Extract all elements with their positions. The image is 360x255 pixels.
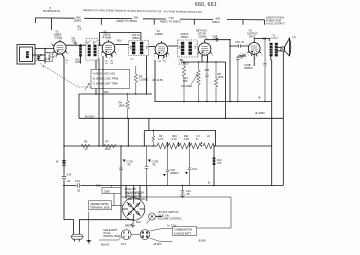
svg-text:PL-1: PL-1 (121, 242, 127, 246)
resistor R3 (134, 66, 149, 95)
wire loop to grid (35, 48, 54, 50)
svg-text:5: 5 (212, 55, 214, 57)
svg-text:C15 .01: C15 .01 (235, 40, 245, 44)
B- bus (155, 60, 272, 102)
svg-text:30X: 30X (134, 15, 139, 19)
svg-text:L6: L6 (207, 134, 210, 138)
svg-text:.005: .005 (204, 68, 210, 72)
B+ bus (79, 117, 283, 119)
svg-text:.03: .03 (67, 179, 71, 183)
capacitor C1B trimmer arrow (85, 84, 90, 91)
wire V3 plate to T3if (168, 45, 178, 47)
svg-text:B+105V: B+105V (256, 111, 266, 115)
svg-text:4.7K: 4.7K (158, 137, 164, 141)
svg-text:600KC TO 455KC: 600KC TO 455KC (117, 19, 138, 23)
svg-text:7: 7 (110, 58, 112, 60)
wire 45V feed line (79, 93, 152, 95)
resistor R13 box 2950 (96, 184, 123, 206)
svg-text:C14: C14 (75, 179, 80, 183)
svg-text:SENSITIVITY AND STAGE GAINS AT: SENSITIVITY AND STAGE GAINS AT 50 MILLIW… (83, 8, 203, 14)
svg-text:COIL: COIL (75, 60, 82, 64)
wire canA return (98, 59, 100, 147)
electrolytic C17A (119, 146, 133, 186)
bracket ticks (36, 18, 265, 30)
svg-text:7.5X: 7.5X (169, 16, 175, 20)
svg-text:1.3K: 1.3K (184, 137, 190, 141)
svg-text:.004: .004 (213, 36, 219, 40)
svg-text:5: 5 (116, 54, 118, 56)
svg-text:COMBINATION: COMBINATION (174, 228, 192, 232)
battery box note (150, 227, 197, 242)
svg-text:B 1620KC OSC TRIM: B 1620KC OSC TRIM (93, 77, 118, 81)
wire avc return drop (229, 46, 231, 102)
capacitor C14 coupling (216, 38, 218, 42)
bottom rail (63, 185, 283, 187)
svg-text:.05: .05 (77, 189, 81, 193)
svg-text:VIEWED FROM: VIEWED FROM (90, 202, 109, 206)
wire switch bottom area (120, 146, 122, 186)
potentiometer R5 volume (181, 61, 200, 101)
inductor L7 hash choke (212, 146, 222, 186)
BUSES (63, 57, 283, 234)
svg-text:2: 2 (198, 56, 200, 58)
left return vertical (63, 57, 65, 186)
svg-text:45V: 45V (104, 90, 109, 94)
filter loop wire (148, 118, 150, 130)
BOTTOM (71, 146, 231, 246)
transformer T4 output (269, 34, 279, 57)
svg-text:R5: R5 (84, 140, 88, 144)
svg-text:2: 2 (154, 56, 156, 58)
capacitor C13b (204, 61, 210, 101)
svg-text:R13: R13 (96, 184, 101, 188)
svg-text:BLACK: BLACK (101, 242, 110, 246)
loop antenna L1 (17, 45, 35, 65)
V2 pin stubs down (103, 55, 112, 147)
wire loop lower (33, 54, 46, 56)
alignment box (91, 69, 130, 88)
svg-text:.1: .1 (65, 63, 68, 65)
capacitor C15 coupling (239, 44, 241, 48)
V1 pin stubs down (62, 55, 64, 58)
wire B- right drop (271, 102, 273, 186)
svg-text:PRONG VIEW: PRONG VIEW (104, 234, 121, 238)
svg-text:5: 5 (262, 54, 264, 56)
divider chain resistors (157, 134, 215, 149)
svg-text:4: 4 (61, 38, 63, 40)
svg-text:2.2MEG: 2.2MEG (139, 78, 149, 82)
svg-text:BROWN: BROWN (125, 224, 135, 228)
wire B+ right drop (282, 118, 284, 185)
wire screen drop (127, 118, 129, 146)
svg-text:LINE POSITION: LINE POSITION (127, 197, 146, 201)
wire vertical x79 to B+ (78, 94, 80, 118)
svg-text:1: 1 (56, 57, 58, 59)
svg-text:TERMINAL SIDE: TERMINAL SIDE (90, 206, 110, 210)
mid rail with divider chain (64, 145, 157, 147)
transformer T3 2nd IF (178, 32, 198, 57)
svg-text:B+105V: B+105V (85, 114, 95, 118)
svg-text:C19: C19 (192, 167, 197, 171)
svg-text:30MFD: 30MFD (170, 171, 179, 175)
tube V4 det avc af (196, 29, 214, 61)
resistor R14 (131, 220, 142, 228)
svg-text:B-: B- (259, 96, 262, 100)
switch S1B (147, 213, 163, 224)
svg-text:68: 68 (111, 63, 114, 65)
transformer T1 osc (86, 39, 98, 60)
wire canB cap return (146, 56, 148, 95)
svg-text:C 1400KC ANT TRIM: C 1400KC ANT TRIM (93, 82, 118, 86)
TOPROW (17, 29, 296, 119)
electrolytic C17B (145, 146, 159, 186)
measurement bracket line (36, 18, 265, 20)
V3 pin stubs down (159, 54, 167, 60)
tube V2 IF amp (100, 30, 118, 60)
wire T2 to V3 (149, 46, 156, 48)
svg-text:C9: C9 (130, 59, 134, 61)
plug PL-1 male (99, 228, 131, 247)
svg-text:6: 6 (110, 38, 112, 40)
electrolytic C17C on left line (56, 160, 66, 166)
svg-text:455KC: 455KC (181, 35, 189, 39)
svg-text:A+ 7.5V: A+ 7.5V (167, 224, 177, 228)
wire osc grid return (95, 60, 97, 94)
node plate junction (229, 39, 230, 40)
svg-text:12BA6: 12BA6 (155, 32, 163, 36)
svg-text:455KC: 455KC (212, 20, 220, 24)
svg-text:500: 500 (183, 79, 188, 83)
note viewed from terminal side (89, 201, 112, 210)
switch S1A rotary (123, 198, 145, 220)
resistor R7b on rail (104, 140, 116, 151)
svg-text:1.4: 1.4 (78, 27, 82, 31)
svg-text:LS: LS (293, 35, 296, 39)
svg-text:A 455KC OSC ADJ: A 455KC OSC ADJ (93, 72, 116, 76)
svg-text:5: 5 (68, 54, 70, 56)
V4 pin stubs to AF rail (202, 56, 208, 63)
svg-text:470K: 470K (218, 75, 224, 79)
electrolytic C19 (185, 146, 197, 186)
wire speaker return (282, 51, 284, 118)
capacitor C14 on left line (62, 173, 72, 184)
svg-text:600KC: 600KC (74, 18, 82, 22)
wire drop to B+ (225, 62, 227, 118)
inductor L2 osc coil (75, 44, 83, 64)
svg-text:455KC: 455KC (132, 36, 140, 40)
capacitor C16A (236, 53, 246, 103)
left vertical lower to plug (64, 186, 74, 235)
wire gang dashed linkage (40, 64, 91, 88)
node B- label (213, 185, 214, 186)
svg-text:7: 7 (255, 58, 257, 60)
svg-text:B-: B- (208, 181, 211, 185)
svg-text:.05: .05 (186, 192, 190, 196)
svg-text:+B 90V: +B 90V (153, 242, 162, 246)
transformer T2 1st IF (129, 33, 149, 55)
resistor R7a on rail (81, 140, 90, 151)
node T1-V2 junction (99, 45, 100, 46)
wire T1 to V2 (98, 44, 102, 46)
svg-text:.05: .05 (105, 63, 109, 65)
MIDDLE (56, 38, 267, 198)
svg-text:T1: T1 (273, 34, 277, 38)
electrolytic C18 (163, 146, 179, 186)
wire feeds to switch (126, 186, 147, 202)
wire AF top rail (181, 61, 226, 63)
capacitor C16B (244, 38, 267, 102)
svg-text:1200: 1200 (105, 147, 111, 151)
wire V2 plate to T2 (115, 44, 129, 46)
HEADER (36, 2, 286, 31)
svg-text:R3: R3 (163, 61, 167, 63)
resistor R6 screen (119, 93, 130, 119)
wire V5 cathode stub (253, 54, 255, 66)
wire lower loop (121, 197, 231, 228)
svg-text:2.2K: 2.2K (172, 137, 178, 141)
wire V5 plate to T4 (254, 39, 269, 42)
capacitor C3 grid (45, 53, 58, 62)
svg-text:180K: 180K (119, 104, 125, 108)
tube V5 output (246, 29, 264, 60)
svg-text:R12: R12 (136, 220, 141, 224)
wire top bus to T2 (100, 33, 141, 46)
svg-text:1: 1 (248, 55, 250, 57)
svg-text:-B 90V: -B 90V (198, 239, 206, 243)
AC line plug (71, 234, 83, 241)
svg-text:50C5: 50C5 (249, 35, 256, 39)
capacitor C20 ground (180, 185, 191, 198)
svg-text:A VOL OUTPUT: A VOL OUTPUT (266, 22, 285, 26)
svg-text:470: 470 (217, 161, 222, 165)
wire V4 plate (205, 39, 230, 41)
capacitor C2 (74, 42, 77, 45)
node junction dots B- (183, 101, 184, 102)
svg-text:C14: C14 (67, 173, 72, 177)
resistor R9 small (152, 130, 155, 147)
svg-text:VOLUME: VOLUME (181, 84, 192, 88)
svg-text:VOLUME CONTROL: VOLUME CONTROL (158, 217, 183, 221)
resistor R8 (214, 61, 224, 101)
ground chassis (86, 212, 91, 244)
svg-text:90V: 90V (117, 39, 122, 43)
wire T4 secondary to speaker (278, 48, 282, 51)
wire plug right feed (79, 220, 133, 235)
svg-text:MICROVOLTS: MICROVOLTS (43, 9, 60, 13)
svg-text:5: 5 (169, 56, 171, 58)
svg-text:W: W (56, 160, 59, 164)
svg-text:R7: R7 (106, 140, 110, 144)
svg-text:455KC TO 455KC: 455KC TO 455KC (160, 20, 181, 24)
svg-text:220: 220 (72, 39, 77, 43)
svg-text:A AND B BATT: A AND B BATT (174, 231, 192, 235)
resistor R4 (179, 58, 189, 102)
svg-text:C10: C10 (157, 61, 162, 63)
plug SO-1 female (131, 230, 150, 240)
wire V1 plate to T1 (66, 44, 86, 46)
resistor R1 grid leak (47, 53, 51, 62)
capacitor C14 series in rail (75, 179, 81, 192)
node rail junctions (98, 145, 99, 146)
node loop junctions (44, 49, 46, 64)
tube V1 converter (51, 30, 70, 60)
wire to V5 grid (230, 40, 248, 46)
svg-text:2950: 2950 (104, 189, 110, 193)
capacitor C1A tuning (36, 54, 51, 61)
tube V3 2nd IF (153, 29, 171, 61)
speaker LS (281, 35, 296, 56)
svg-text:OUTPUT: OUTPUT (270, 38, 280, 40)
svg-text:CB 13.5V: CB 13.5V (152, 78, 163, 82)
svg-text:30MFD: 30MFD (244, 66, 253, 70)
svg-text:40X: 40X (216, 16, 221, 20)
wire T4 primary bottom (270, 57, 273, 102)
svg-text:660, 661: 660, 661 (195, 2, 217, 8)
svg-text:.05: .05 (240, 56, 244, 60)
